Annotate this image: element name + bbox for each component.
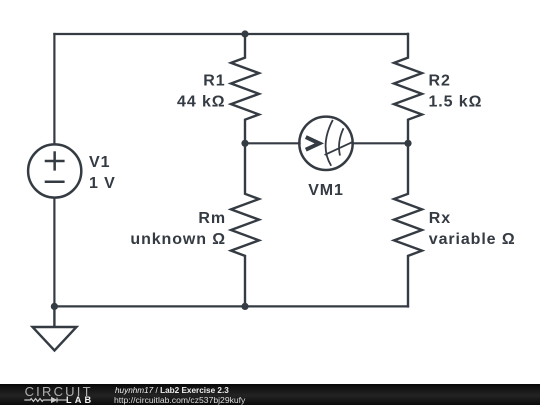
svg-text:1.5 kΩ: 1.5 kΩ — [429, 93, 483, 110]
wire bottom rail — [54, 305, 408, 307]
svg-text:1 V: 1 V — [89, 175, 116, 192]
wire left rail upper — [53, 34, 55, 144]
voltmeter VM1 — [299, 117, 352, 170]
ground — [33, 306, 77, 350]
resistor R2 — [394, 34, 422, 143]
CircuitLab logo word CIRCUIT — [25, 384, 93, 399]
wire middle left — [245, 142, 300, 144]
footer url text — [114, 395, 245, 405]
node dot R2 bottom — [404, 140, 411, 147]
svg-text:VM1: VM1 — [308, 182, 344, 199]
voltage source V1 — [28, 144, 81, 197]
wire middle right — [352, 142, 408, 144]
node dot R1 top — [241, 30, 248, 37]
resistor R1 — [231, 34, 259, 143]
CircuitLab logo word LAB — [66, 395, 94, 405]
wire top rail — [54, 33, 408, 35]
svg-text:unknown Ω: unknown Ω — [130, 231, 226, 248]
svg-text:R2: R2 — [429, 72, 451, 89]
svg-text:Rm: Rm — [198, 210, 226, 227]
node dot R1 bottom — [241, 140, 248, 147]
svg-text:44 kΩ: 44 kΩ — [177, 93, 225, 110]
resistor Rx — [394, 143, 422, 306]
footer bar — [0, 384, 540, 405]
svg-text:V1: V1 — [89, 154, 110, 171]
svg-text:Rx: Rx — [429, 210, 451, 227]
node dot ground — [51, 303, 58, 310]
CircuitLab logo wire with resistor and diode — [24, 395, 70, 405]
resistor Rm — [231, 143, 259, 306]
svg-text:R1: R1 — [203, 72, 225, 89]
footer title text — [115, 386, 229, 395]
svg-text:variable Ω: variable Ω — [429, 231, 516, 248]
node dot Rm bottom — [241, 303, 248, 310]
wire left rail lower — [53, 198, 55, 307]
